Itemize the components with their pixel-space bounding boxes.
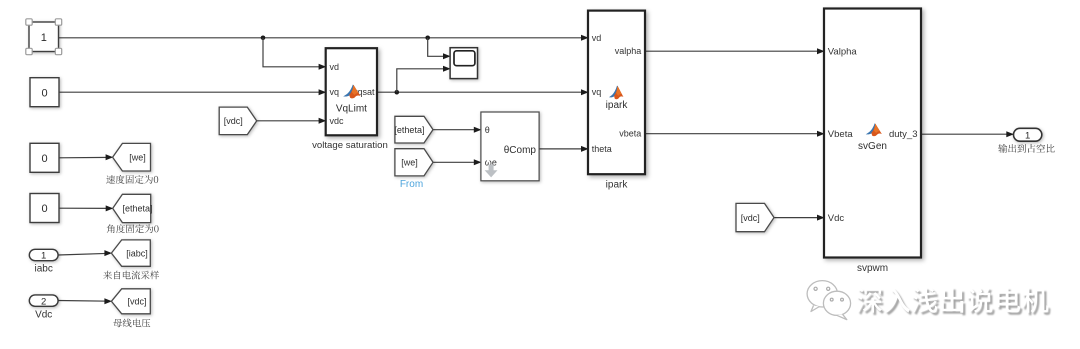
svg-text:From: From: [400, 179, 423, 190]
from tag [we]: [395, 149, 433, 176]
label laizi-dianliu-caiyang (from current sampling): [103, 271, 159, 280]
wire ipark valpha to svGen Valpha: [645, 48, 825, 54]
svg-text:[vdc]: [vdc]: [127, 297, 146, 307]
goto tag [we]: [113, 143, 151, 171]
wire branch C to Scope input 2: [397, 66, 451, 92]
label sudu-guding-wei-0 (speed fixed at 0): [106, 175, 158, 184]
node junction B (to Scope in1): [425, 36, 430, 41]
wire branch A to VqLimt vd: [263, 38, 326, 70]
wire const1 to ipark vd: [59, 35, 589, 41]
svg-text:vd: vd: [592, 33, 602, 43]
wire const0_4 to Goto[etheta]: [59, 205, 113, 211]
label shuchu-dao-zhankongbi (output to duty cycle): [998, 144, 1054, 153]
svg-text:vd: vd: [330, 62, 340, 72]
wire VqLimt vqsat to ipark vq: [377, 89, 589, 95]
svg-text:Vdc: Vdc: [828, 213, 845, 224]
constant block "0" (vq): [30, 78, 59, 107]
wire svGen duty_3 to outport: [921, 131, 1014, 137]
selection handles of constant "1": [26, 19, 62, 55]
MATLAB function block svGen: [824, 9, 921, 258]
wire const0 to VqLimt vq: [59, 89, 326, 95]
svg-text:theta: theta: [592, 144, 612, 154]
svg-text:Vbeta: Vbeta: [828, 129, 854, 140]
from tag [etheta]: [394, 116, 433, 143]
node junction C (to Scope in2): [395, 90, 400, 95]
wire From[vdc] to VqLimt vdc: [257, 118, 327, 124]
svg-text:svpwm: svpwm: [857, 263, 888, 274]
wire thetaComp to ipark theta: [539, 146, 589, 152]
svg-text:vdc: vdc: [330, 116, 345, 126]
constant block "1" (selected): [29, 22, 59, 52]
wire inport1 to Goto[iabc]: [58, 250, 112, 256]
label muxian-dianya (bus voltage): [113, 319, 150, 328]
svg-text:Vdc: Vdc: [35, 309, 52, 320]
watermark WeChat logo (two chat bubbles): [807, 281, 851, 320]
svg-text:valpha: valpha: [615, 46, 642, 56]
svg-text:1: 1: [41, 251, 46, 262]
svg-text:[we]: [we]: [401, 158, 418, 168]
wire From[we] to thetaComp: [433, 159, 481, 165]
goto tag [iabc]: [111, 240, 150, 266]
outport 1 oval: [1014, 128, 1042, 141]
wire inport2 to Goto[vdc]: [58, 298, 112, 304]
MATLAB function block ipark: [588, 11, 645, 175]
svg-text:[vdc]: [vdc]: [741, 213, 760, 223]
svg-text:ipark: ipark: [606, 100, 629, 111]
svg-text:1: 1: [41, 32, 47, 44]
label jiaodu-guding-wei-0 (angle fixed at 0): [107, 224, 159, 233]
subsystem thetaComp: [481, 112, 539, 181]
inport 1 oval: [29, 249, 58, 261]
wire From[etheta] to thetaComp: [433, 127, 481, 133]
scope block: [450, 48, 477, 79]
svg-text:vbeta: vbeta: [619, 129, 641, 139]
svg-text:vq: vq: [330, 87, 340, 97]
constant block "0" (etheta): [30, 194, 59, 223]
goto tag [etheta]: [113, 194, 153, 222]
svg-text:0: 0: [41, 203, 47, 215]
svg-text:[we]: [we]: [129, 153, 146, 163]
wire ipark vbeta to svGen Vbeta: [645, 131, 825, 137]
svg-text:[etheta]: [etheta]: [394, 125, 424, 135]
svg-text:[etheta]: [etheta]: [123, 204, 153, 214]
from tag [vdc] (to VqLimt): [219, 107, 257, 135]
svg-text:svGen: svGen: [858, 141, 887, 152]
node junction A (to VqLimt vd): [261, 36, 266, 41]
wire From[vdc]2 to svGen Vdc: [774, 215, 825, 221]
svg-text:iabc: iabc: [35, 264, 53, 275]
svg-text:0: 0: [41, 153, 47, 165]
svg-text:[iabc]: [iabc]: [126, 248, 148, 258]
svg-text:voltage saturation: voltage saturation: [312, 140, 388, 151]
wire branch B to Scope input 1: [428, 38, 451, 60]
svg-text:θ: θ: [485, 125, 490, 135]
svg-text:Valpha: Valpha: [828, 47, 858, 58]
svg-text:vq: vq: [592, 87, 602, 97]
svg-text:2: 2: [41, 296, 46, 307]
watermark text shen-ru-qian-chu-shuo-dian-ji: [856, 287, 1050, 315]
wire const0_3 to Goto[we]: [59, 154, 113, 160]
svg-text:[vdc]: [vdc]: [224, 116, 243, 126]
gray down-arrow badge in thetaComp: [485, 165, 498, 178]
goto tag [vdc]: [111, 289, 150, 314]
svg-text:VqLimt: VqLimt: [336, 104, 367, 115]
inport 2 oval: [29, 295, 58, 307]
from tag [vdc] (to svGen): [736, 203, 774, 231]
svg-text:1: 1: [1025, 131, 1030, 142]
svg-text:θComp: θComp: [504, 145, 537, 156]
svg-text:duty_3: duty_3: [889, 129, 918, 140]
MATLAB function block VqLimt: [326, 48, 377, 135]
svg-text:ipark: ipark: [606, 179, 629, 190]
svg-text:0: 0: [41, 88, 47, 100]
constant block "0" (we): [30, 143, 59, 172]
